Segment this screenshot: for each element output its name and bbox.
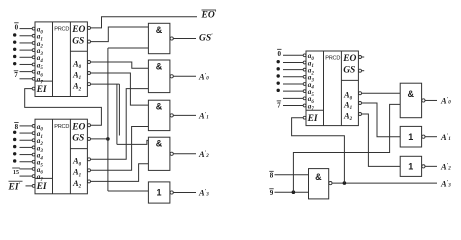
svg-text:&: &: [407, 89, 414, 99]
svg-text:&: &: [156, 62, 163, 72]
svg-text:GS: GS: [343, 65, 355, 75]
svg-text:7: 7: [14, 71, 18, 79]
svg-text:15: 15: [13, 170, 19, 176]
svg-text:EO: EO: [342, 54, 356, 64]
svg-text:&: &: [156, 102, 163, 112]
svg-text:EO: EO: [71, 25, 85, 35]
svg-text:1: 1: [156, 188, 161, 198]
svg-text:GS: GS: [72, 36, 84, 46]
svg-text:EI: EI: [36, 182, 47, 192]
svg-text:1: 1: [408, 132, 413, 142]
svg-text:0: 0: [278, 50, 282, 58]
svg-text:EI: EI: [307, 114, 318, 124]
svg-text:GS: GS: [72, 134, 84, 144]
svg-text:PRCD: PRCD: [54, 124, 69, 130]
svg-text:0: 0: [15, 23, 19, 31]
svg-text:PRCD: PRCD: [54, 27, 69, 33]
svg-text:7: 7: [277, 101, 281, 109]
svg-text:8: 8: [15, 123, 19, 131]
svg-text:EI: EI: [36, 85, 47, 95]
svg-text:EO′: EO′: [201, 11, 217, 21]
svg-text:&: &: [315, 172, 322, 182]
svg-text:&: &: [156, 139, 163, 149]
svg-text:PRCD: PRCD: [325, 56, 340, 62]
svg-text:9: 9: [270, 189, 274, 197]
svg-text:GS′: GS′: [199, 33, 213, 43]
svg-text:EO: EO: [71, 122, 85, 132]
svg-text:8: 8: [270, 172, 274, 180]
svg-text:1: 1: [408, 162, 413, 172]
svg-text:&: &: [156, 25, 163, 35]
